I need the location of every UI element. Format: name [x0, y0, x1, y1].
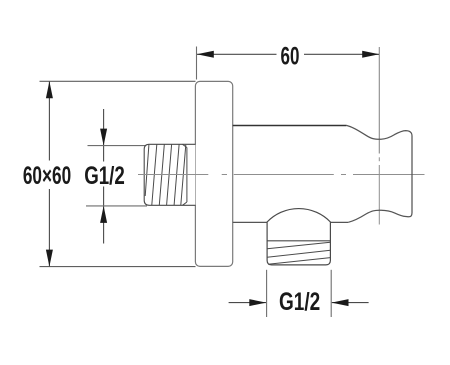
bottom outlet dome + nut [267, 209, 330, 265]
wire: top dim extension line left [196, 47, 198, 80]
wire: G1/2 left dim line lower [103, 187, 105, 244]
wall plate (side view) [195, 81, 232, 266]
svg-text:60×60: 60×60 [23, 162, 71, 190]
wire: left dim extension top [40, 80, 196, 82]
wire: G1/2 bottom dim line left [229, 302, 266, 304]
nut top line [267, 240, 330, 242]
arrow: top dim right [362, 51, 379, 58]
thread end line on fitting [186, 148, 188, 203]
threaded inlet G1/2 (left fitting) [144, 144, 195, 205]
svg-text:G1/2: G1/2 [84, 161, 125, 189]
arm top line [233, 125, 347, 127]
nut thread lines [267, 242, 330, 264]
wire: G1/2 bottom extension right [330, 270, 332, 317]
holder knob profile [346, 125, 412, 222]
arrow: left dim up [46, 81, 53, 98]
arrow: G1/2 bottom pointing left [332, 299, 349, 306]
thread chamfer bottom [183, 202, 187, 205]
centerline horizontal [138, 174, 425, 176]
arrow: G1/2 bottom pointing right [249, 299, 266, 306]
arrow: G1/2 left down [100, 129, 107, 146]
thread chamfer top [183, 144, 187, 147]
arrow: G1/2 left up [100, 206, 107, 223]
wire: top dimension line [197, 53, 277, 55]
wire: G1/2 left dim line upper [103, 109, 105, 162]
arm bottom shoulder left [233, 221, 268, 223]
svg-text:60: 60 [281, 42, 300, 70]
wire: left dimension line [48, 82, 50, 161]
arm bottom shoulder right [330, 221, 348, 223]
arrow: top dim left [197, 51, 214, 58]
threads on fitting [145, 145, 186, 206]
wire: left dim extension bottom [40, 266, 196, 268]
wire: top dim extension line right (upper part of vertical axis) [378, 47, 380, 154]
wire: G1/2 left extension bottom [86, 205, 147, 207]
wire: G1/2 bottom extension left [266, 270, 268, 317]
wire: G1/2 left extension top [88, 145, 148, 147]
wire: G1/2 bottom dim line right [332, 302, 369, 304]
arrow: left dim down [46, 250, 53, 267]
centerline vertical (holder axis) [378, 157, 380, 224]
svg-text:G1/2: G1/2 [279, 287, 320, 315]
